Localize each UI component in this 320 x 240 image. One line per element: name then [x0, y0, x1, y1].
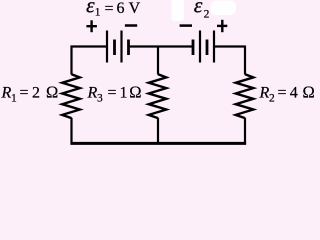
svg-text:1: 1 [95, 7, 101, 19]
battery E1 positive long plate [106, 31, 108, 63]
battery E1 short plate 1 [113, 40, 116, 56]
plus sign E1 [86, 20, 97, 32]
white patch right of EMF2 label [211, 1, 237, 16]
svg-text:=: = [105, 1, 114, 18]
wire bottom [71, 142, 247, 145]
label R3 = 1 ohm [87, 83, 142, 105]
svg-text:2: 2 [32, 85, 40, 102]
svg-text:R: R [1, 85, 12, 102]
battery E2 positive long plate [213, 31, 215, 63]
svg-text:ε: ε [194, 0, 203, 18]
battery E1 short plate 2 [127, 40, 130, 56]
svg-text:3: 3 [97, 93, 103, 105]
svg-text:V: V [129, 0, 141, 17]
svg-text:2: 2 [204, 8, 210, 20]
svg-text:2: 2 [269, 93, 275, 105]
svg-text:4: 4 [290, 85, 298, 102]
wire left branch bottom stub [70, 118, 72, 145]
svg-text:=: = [20, 85, 29, 102]
svg-text:1: 1 [11, 93, 17, 105]
svg-text:1: 1 [120, 85, 128, 102]
wire right branch top stub [244, 46, 246, 75]
wire right branch bottom stub [244, 118, 246, 145]
svg-text:6: 6 [117, 0, 125, 17]
battery E2 short plate 1 [192, 40, 195, 56]
wire middle branch bottom stub [157, 118, 159, 144]
svg-text:=: = [278, 85, 287, 102]
wire top-middle segment [129, 45, 194, 47]
svg-text:Ω: Ω [303, 83, 315, 102]
white patch left of EMF2 label [172, 0, 185, 21]
svg-text:R: R [87, 85, 98, 102]
wire top-left segment [71, 45, 108, 47]
plus sign E2 [217, 20, 227, 32]
svg-text:R: R [259, 85, 270, 102]
wire left branch top stub [70, 46, 72, 75]
battery E1 long plate 2 [120, 31, 122, 63]
svg-text:=: = [108, 85, 117, 102]
svg-text:ε: ε [86, 0, 95, 18]
resistor R3 zigzag [149, 74, 167, 118]
label R2 = 4 ohm [259, 83, 315, 105]
svg-text:Ω: Ω [46, 83, 58, 102]
minus sign E1 [125, 24, 137, 27]
resistor R1 zigzag [62, 74, 80, 118]
label EMF2 [194, 0, 210, 20]
label EMF1 = 6 V [86, 0, 141, 19]
battery E2 long plate 1 [199, 31, 201, 63]
wire middle branch top stub [157, 47, 159, 75]
resistor R2 zigzag [236, 74, 254, 118]
svg-text:Ω: Ω [129, 83, 141, 102]
minus sign E2 [180, 24, 192, 27]
battery E2 short plate 2 [206, 40, 209, 56]
wire top-right segment [214, 45, 246, 47]
label R1 = 2 ohm [1, 83, 59, 105]
